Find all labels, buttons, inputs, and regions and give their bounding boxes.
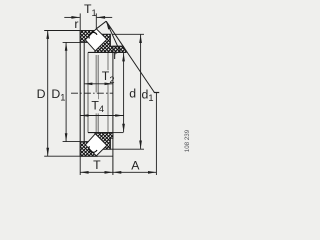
washer housing-washer bottom section (hatched): [80, 142, 96, 157]
wire bore line top y=52.4: [88, 51, 113, 53]
node D1 extension line top: [63, 41, 81, 43]
wire silhouette x=84: [83, 42, 85, 141]
wire silhouette x=108: [107, 52, 109, 132]
roller bottom (barrel roller): [85, 134, 107, 156]
wire bore line top extension: [113, 51, 126, 53]
dimension T4 line: [80, 115, 123, 117]
svg-text:108 239: 108 239: [184, 129, 191, 152]
node A extension line (pressure center): [155, 93, 157, 176]
washer shaft-washer top section (hatched): [94, 34, 113, 52]
dimension T2 line: [84, 83, 113, 85]
node bearing axis centerline: [71, 92, 113, 94]
roller top sphere arc: [89, 32, 97, 38]
wire step extension line y=46.2: [113, 45, 123, 47]
dimension d line: [123, 53, 125, 132]
dimension T line: [80, 171, 113, 173]
node pressure center cap: [154, 92, 159, 94]
washer shaft-washer bottom section (hatched): [94, 133, 113, 150]
dimension d1 line: [140, 35, 142, 149]
node D1 extension line bottom: [63, 141, 81, 143]
node T1 dimension line: [64, 16, 80, 18]
node D extension line top: [44, 30, 80, 32]
wire bore line bottom extension: [113, 132, 124, 134]
wire bore line bottom: [88, 132, 113, 134]
wire silhouette x=88: [87, 52, 89, 132]
dimension A line: [113, 171, 156, 173]
svg-text:D: D: [37, 87, 46, 101]
node T1 extension lines: [79, 13, 81, 30]
dimension D1 line: [65, 42, 67, 141]
roller bottom sphere arc: [89, 146, 97, 152]
roller top (barrel roller): [85, 29, 107, 51]
node roller axis line with arrowhead at apex: [106, 21, 120, 52]
svg-text:r: r: [74, 17, 78, 31]
node T left extension: [79, 156, 81, 175]
dimension D line: [47, 31, 49, 157]
svg-text:A: A: [131, 159, 140, 173]
svg-text:d: d: [129, 87, 136, 101]
svg-text:T: T: [93, 158, 101, 172]
node roller edge extension to apex: [96, 21, 106, 29]
node d1 extension line top: [112, 33, 144, 35]
wire cage silhouette band lower: [96, 113, 98, 133]
node d1 extension line bottom: [110, 148, 144, 150]
wire silhouette x=98.4: [97, 55, 99, 133]
svg-text:r: r: [113, 48, 117, 62]
wire left face silhouette x=80: [79, 31, 81, 157]
wire cage silhouette band upper: [96, 55, 98, 92]
node load line (apex to pressure center): [106, 21, 154, 92]
node D extension line bottom: [44, 155, 113, 157]
washer housing-washer top section (hatched): [80, 31, 95, 43]
washer shaft-washer flange wedge (hatched): [113, 46, 126, 52]
wire right face silhouette x=112.9 + extension: [112, 46, 114, 175]
